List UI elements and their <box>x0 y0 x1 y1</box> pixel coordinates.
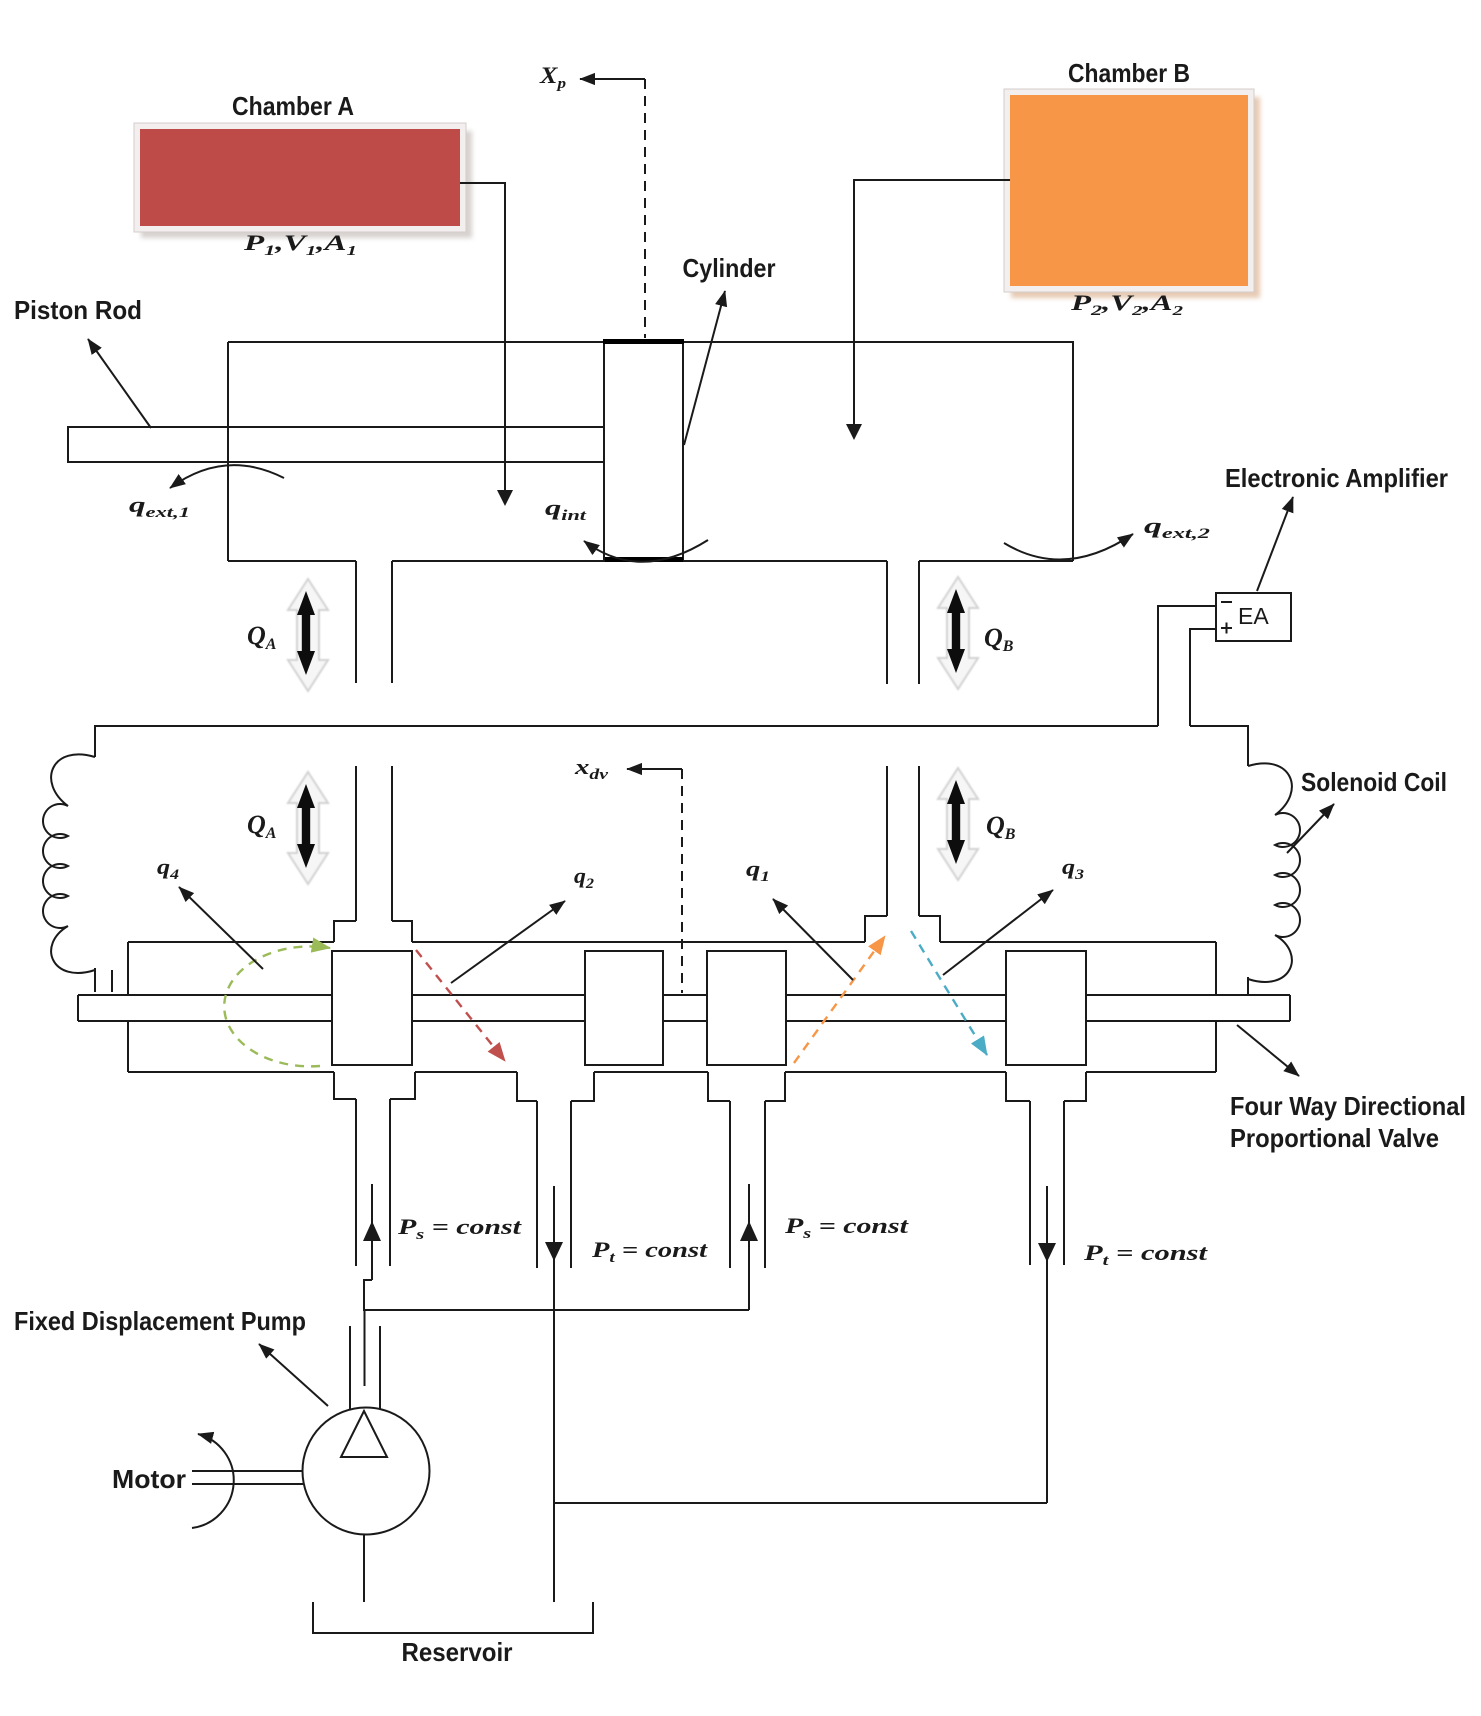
solenoid coil label <box>1301 767 1447 797</box>
valve body top edge <box>128 941 1216 943</box>
valve body bottom edge <box>128 1071 1216 1073</box>
pipe QB lower left wall <box>886 766 888 916</box>
Xp label <box>539 63 567 92</box>
motor rotation arrow <box>192 1434 234 1528</box>
q3 label <box>1062 854 1085 883</box>
q1 annotation arrow <box>773 899 853 980</box>
q1 label <box>746 856 770 885</box>
pump triangle symbol <box>341 1411 387 1457</box>
electronic amplifier label <box>1225 463 1448 493</box>
svg-text:Piston Rod: Piston Rod <box>14 295 142 325</box>
QB flow double arrow lower <box>938 768 978 880</box>
electronic amplifier EA box <box>1216 593 1291 641</box>
q2 annotation arrow <box>451 901 565 983</box>
piston rod <box>68 427 604 462</box>
piston <box>603 342 684 562</box>
xdv dashed reference line <box>681 769 683 993</box>
svg-text:Pt = const: Pt = const <box>591 1237 708 1266</box>
solenoid coil left <box>43 754 112 992</box>
pump outlet tube <box>350 1311 380 1409</box>
q3 annotation arrow <box>943 890 1053 975</box>
svg-text:Ps = const: Ps = const <box>397 1214 523 1243</box>
svg-text:Chamber B: Chamber B <box>1068 58 1190 88</box>
Pt label left <box>591 1237 708 1266</box>
chamber B box <box>1004 89 1260 298</box>
q_ext2 label <box>1144 513 1211 542</box>
q2 label <box>574 863 595 892</box>
Xp dashed reference line <box>644 79 646 338</box>
xdv label <box>574 754 609 783</box>
Ps label right <box>784 1213 910 1242</box>
wire main horizontal to left solenoid <box>95 726 1158 757</box>
solenoid coil annotation arrow <box>1287 804 1334 853</box>
QB label lower <box>986 811 1016 843</box>
pipe P1 walls <box>356 1099 390 1266</box>
tank line T1 with down arrow <box>545 1186 563 1602</box>
supply manifold horizontal <box>364 1309 749 1311</box>
reservoir tank <box>313 1602 593 1633</box>
pipe QA upper right wall <box>391 561 393 683</box>
leakage arc q_ext1 <box>170 465 284 488</box>
svg-text:P1,V1,A1: P1,V1,A1 <box>242 230 357 259</box>
chamber B value label P2,V2,A2 <box>1070 290 1183 319</box>
svg-text:Motor: Motor <box>112 1464 186 1494</box>
QA flow double arrow upper <box>288 579 328 691</box>
fixed displacement pump circle <box>303 1408 430 1535</box>
leakage arc q_ext2 <box>1004 534 1133 559</box>
wire chamber A to cylinder <box>460 183 513 506</box>
valve body right edge <box>1215 942 1217 1072</box>
reservoir label <box>402 1637 513 1667</box>
QB label upper <box>984 623 1014 655</box>
chamber A box <box>134 123 472 238</box>
spool rod <box>78 995 1290 1021</box>
electronic amplifier annotation arrow <box>1257 497 1293 591</box>
supply line Ps right with up arrow <box>740 1184 758 1310</box>
spool land 1 <box>332 951 412 1065</box>
Xp arrow <box>580 78 645 80</box>
tank line T2 with down arrow <box>1038 1186 1056 1503</box>
supply line Ps left with up arrow <box>363 1184 381 1311</box>
valve port P1 bottom mouth <box>334 1072 415 1099</box>
pipe P2 walls <box>730 1101 765 1268</box>
svg-text:Four Way Directional: Four Way Directional <box>1230 1091 1466 1121</box>
QB flow double arrow upper <box>938 577 978 689</box>
tank return line horizontal <box>554 1502 1047 1504</box>
pump label <box>14 1306 306 1336</box>
q4 label <box>157 854 180 883</box>
svg-text:Solenoid Coil: Solenoid Coil <box>1301 767 1447 797</box>
pipe T1 walls <box>537 1101 571 1268</box>
spool land 4 <box>1006 951 1086 1065</box>
svg-text:P2,V2,A2: P2,V2,A2 <box>1070 290 1183 319</box>
pipe QA upper left wall <box>355 561 357 683</box>
cylinder label <box>683 253 776 283</box>
pump drain line <box>363 1534 365 1602</box>
q4 annotation arrow <box>179 887 263 969</box>
motor label <box>112 1464 186 1494</box>
wire chamber B to cylinder <box>846 180 1010 440</box>
pipe QB lower right wall <box>918 766 920 916</box>
piston rod label <box>14 295 142 325</box>
chamber A value label P1,V1,A1 <box>242 230 357 259</box>
svg-text:Fixed Displacement Pump: Fixed Displacement Pump <box>14 1306 306 1336</box>
svg-text:Electronic Amplifier: Electronic Amplifier <box>1225 463 1448 493</box>
svg-text:Pt = const: Pt = const <box>1083 1240 1209 1269</box>
svg-text:EA: EA <box>1238 603 1269 629</box>
wire EA plus terminal <box>1190 629 1248 766</box>
four way valve label <box>1230 1091 1466 1153</box>
svg-text:Cylinder: Cylinder <box>683 253 776 283</box>
Ps label left <box>397 1214 523 1243</box>
svg-text:Chamber A: Chamber A <box>232 91 354 121</box>
spool land 3 <box>707 951 786 1065</box>
pipe QB upper right wall <box>918 561 920 684</box>
valve port T1 bottom mouth <box>517 1072 594 1101</box>
QA flow double arrow lower <box>288 772 328 884</box>
QA label upper <box>247 621 277 653</box>
valve port A top mouth <box>334 921 412 942</box>
spool land 2 <box>585 951 663 1065</box>
piston rod annotation arrow <box>88 339 151 428</box>
xdv arrow <box>627 768 682 770</box>
wire EA minus terminal <box>1158 606 1216 726</box>
pipe QB upper left wall <box>886 561 888 684</box>
pump annotation arrow <box>259 1344 328 1406</box>
four way valve annotation arrow <box>1237 1025 1299 1076</box>
chamber B label <box>1068 58 1190 88</box>
valve port B top mouth <box>865 916 940 942</box>
svg-text:Ps = const: Ps = const <box>784 1213 910 1242</box>
svg-text:Proportional Valve: Proportional Valve <box>1230 1123 1439 1153</box>
valve port P2 bottom mouth <box>708 1072 785 1101</box>
valve body left edge <box>127 942 129 1072</box>
cylinder annotation arrow <box>684 291 725 445</box>
q_ext1 label <box>129 492 190 521</box>
motor shaft <box>192 1471 303 1484</box>
orange flow arrow q1 path <box>794 936 885 1063</box>
QA label lower <box>247 810 277 842</box>
leakage arc q_int <box>584 540 708 562</box>
pipe T2 walls <box>1030 1101 1064 1265</box>
svg-text:Reservoir: Reservoir <box>402 1637 513 1667</box>
q_int label <box>545 495 587 524</box>
pipe QA lower left wall <box>355 766 357 921</box>
Pt label right <box>1083 1240 1209 1269</box>
solenoid coil right <box>1248 763 1300 996</box>
valve port T2 bottom mouth <box>1006 1072 1086 1101</box>
red flow arrow q2 path <box>416 950 505 1061</box>
blue flow arrow q3 path <box>911 931 987 1055</box>
pipe QA lower right wall <box>391 766 393 921</box>
green flow arc q4 path <box>224 946 330 1066</box>
cylinder body <box>228 342 1073 561</box>
chamber A label <box>232 91 354 121</box>
